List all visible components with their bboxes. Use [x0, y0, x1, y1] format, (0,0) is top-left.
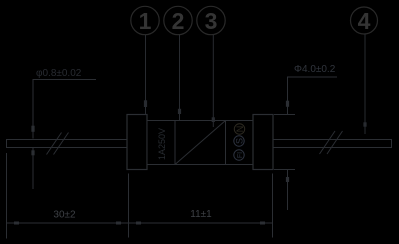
svg-text:1A250V: 1A250V — [157, 128, 167, 160]
dim 0.8 lower arrow — [32, 148, 34, 189]
dim 4.0 lower arrow — [287, 170, 289, 210]
svg-text:φ0.8±0.02: φ0.8±0.02 — [36, 68, 82, 79]
svg-text:N: N — [235, 126, 245, 133]
break mark left — [47, 133, 69, 155]
dim line 30 with arrows — [7, 222, 129, 224]
svg-text:30±2: 30±2 — [53, 210, 76, 221]
svg-text:1: 1 — [139, 8, 152, 34]
svg-text:S: S — [235, 138, 245, 144]
leader 3 — [212, 35, 214, 127]
svg-text:3: 3 — [205, 8, 218, 34]
left lead wire — [7, 140, 128, 148]
svg-text:11±1: 11±1 — [190, 209, 212, 220]
extension line body left — [128, 174, 130, 238]
cert mark N — [234, 124, 245, 134]
fuse left end cap — [127, 115, 147, 170]
balloon 3 — [197, 6, 225, 34]
extension line body right — [272, 174, 274, 238]
break mark right — [320, 131, 343, 154]
dim 4.0 extension bottom — [274, 169, 295, 171]
right lead wire — [273, 140, 392, 148]
cert mark S — [234, 136, 245, 146]
svg-text:Φ4.0±0.2: Φ4.0±0.2 — [294, 64, 336, 75]
svg-text:FI: FI — [237, 152, 244, 158]
body divider right — [225, 121, 227, 165]
dim 4.0 bracket and upper arrow — [288, 77, 338, 114]
fuse right end cap — [253, 115, 273, 170]
dim 4.0 extension top — [274, 114, 295, 116]
cert mark FI — [234, 150, 244, 160]
svg-text:4: 4 — [358, 8, 371, 34]
dim 0.8 bracket and upper arrow — [33, 80, 96, 139]
balloon 2 — [164, 6, 192, 34]
extension line left end — [6, 153, 8, 239]
balloon 1 — [131, 6, 159, 34]
svg-text:2: 2 — [172, 8, 185, 34]
balloon 4 — [351, 7, 378, 34]
leader 4 — [364, 34, 366, 134]
body divider left — [174, 121, 176, 165]
leader 2 — [179, 35, 181, 120]
fuse body tube — [147, 121, 253, 165]
leader 1 — [145, 35, 147, 115]
dim line 11 with arrows — [129, 222, 273, 224]
glass diagonal — [175, 121, 226, 165]
